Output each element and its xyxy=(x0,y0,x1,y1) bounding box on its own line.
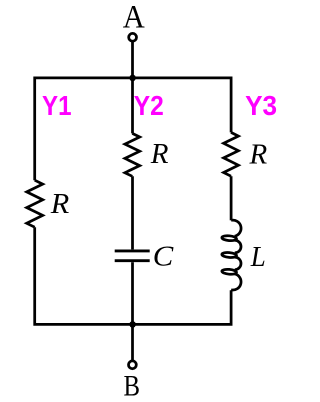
wire left branch lower and bottom rail xyxy=(35,227,231,324)
svg-text:Y2: Y2 xyxy=(134,90,164,121)
svg-text:C: C xyxy=(153,241,174,273)
svg-text:Y1: Y1 xyxy=(42,90,72,121)
inductor L connector arc 1 xyxy=(235,240,241,253)
svg-text:A: A xyxy=(123,0,145,35)
svg-text:L: L xyxy=(250,241,266,273)
junction dot bottom node xyxy=(129,321,136,328)
svg-text:R: R xyxy=(150,138,169,170)
inductor L loop 3 xyxy=(222,269,237,275)
svg-text:Y3: Y3 xyxy=(245,90,277,121)
inductor L coil lead-out arc xyxy=(231,274,241,290)
node A terminal xyxy=(129,33,137,41)
inductor L loop 2 xyxy=(222,252,237,258)
wire resistor to capacitor xyxy=(131,176,134,249)
wire middle branch upper xyxy=(131,78,134,133)
svg-text:R: R xyxy=(50,188,70,220)
inductor L connector arc 2 xyxy=(235,257,241,270)
inductor L loop 1 xyxy=(222,235,237,241)
node B terminal xyxy=(129,361,137,369)
capacitor C bottom plate xyxy=(115,259,150,262)
junction dot top node xyxy=(129,75,136,82)
svg-text:R: R xyxy=(249,138,268,170)
wire resistor to inductor xyxy=(230,176,233,220)
resistor R (branch Y3) xyxy=(224,132,239,176)
svg-text:B: B xyxy=(124,370,141,402)
wire capacitor to bottom rail xyxy=(131,262,134,324)
resistor R (branch Y1) xyxy=(27,180,43,227)
resistor R (branch Y2) xyxy=(125,133,140,176)
wire bottom rail to terminal B xyxy=(131,324,134,360)
capacitor C top plate xyxy=(115,249,150,252)
wire A to top rail xyxy=(131,41,134,78)
inductor L coil lead-in arc xyxy=(231,220,241,236)
wire left branch and top rail xyxy=(35,78,231,180)
